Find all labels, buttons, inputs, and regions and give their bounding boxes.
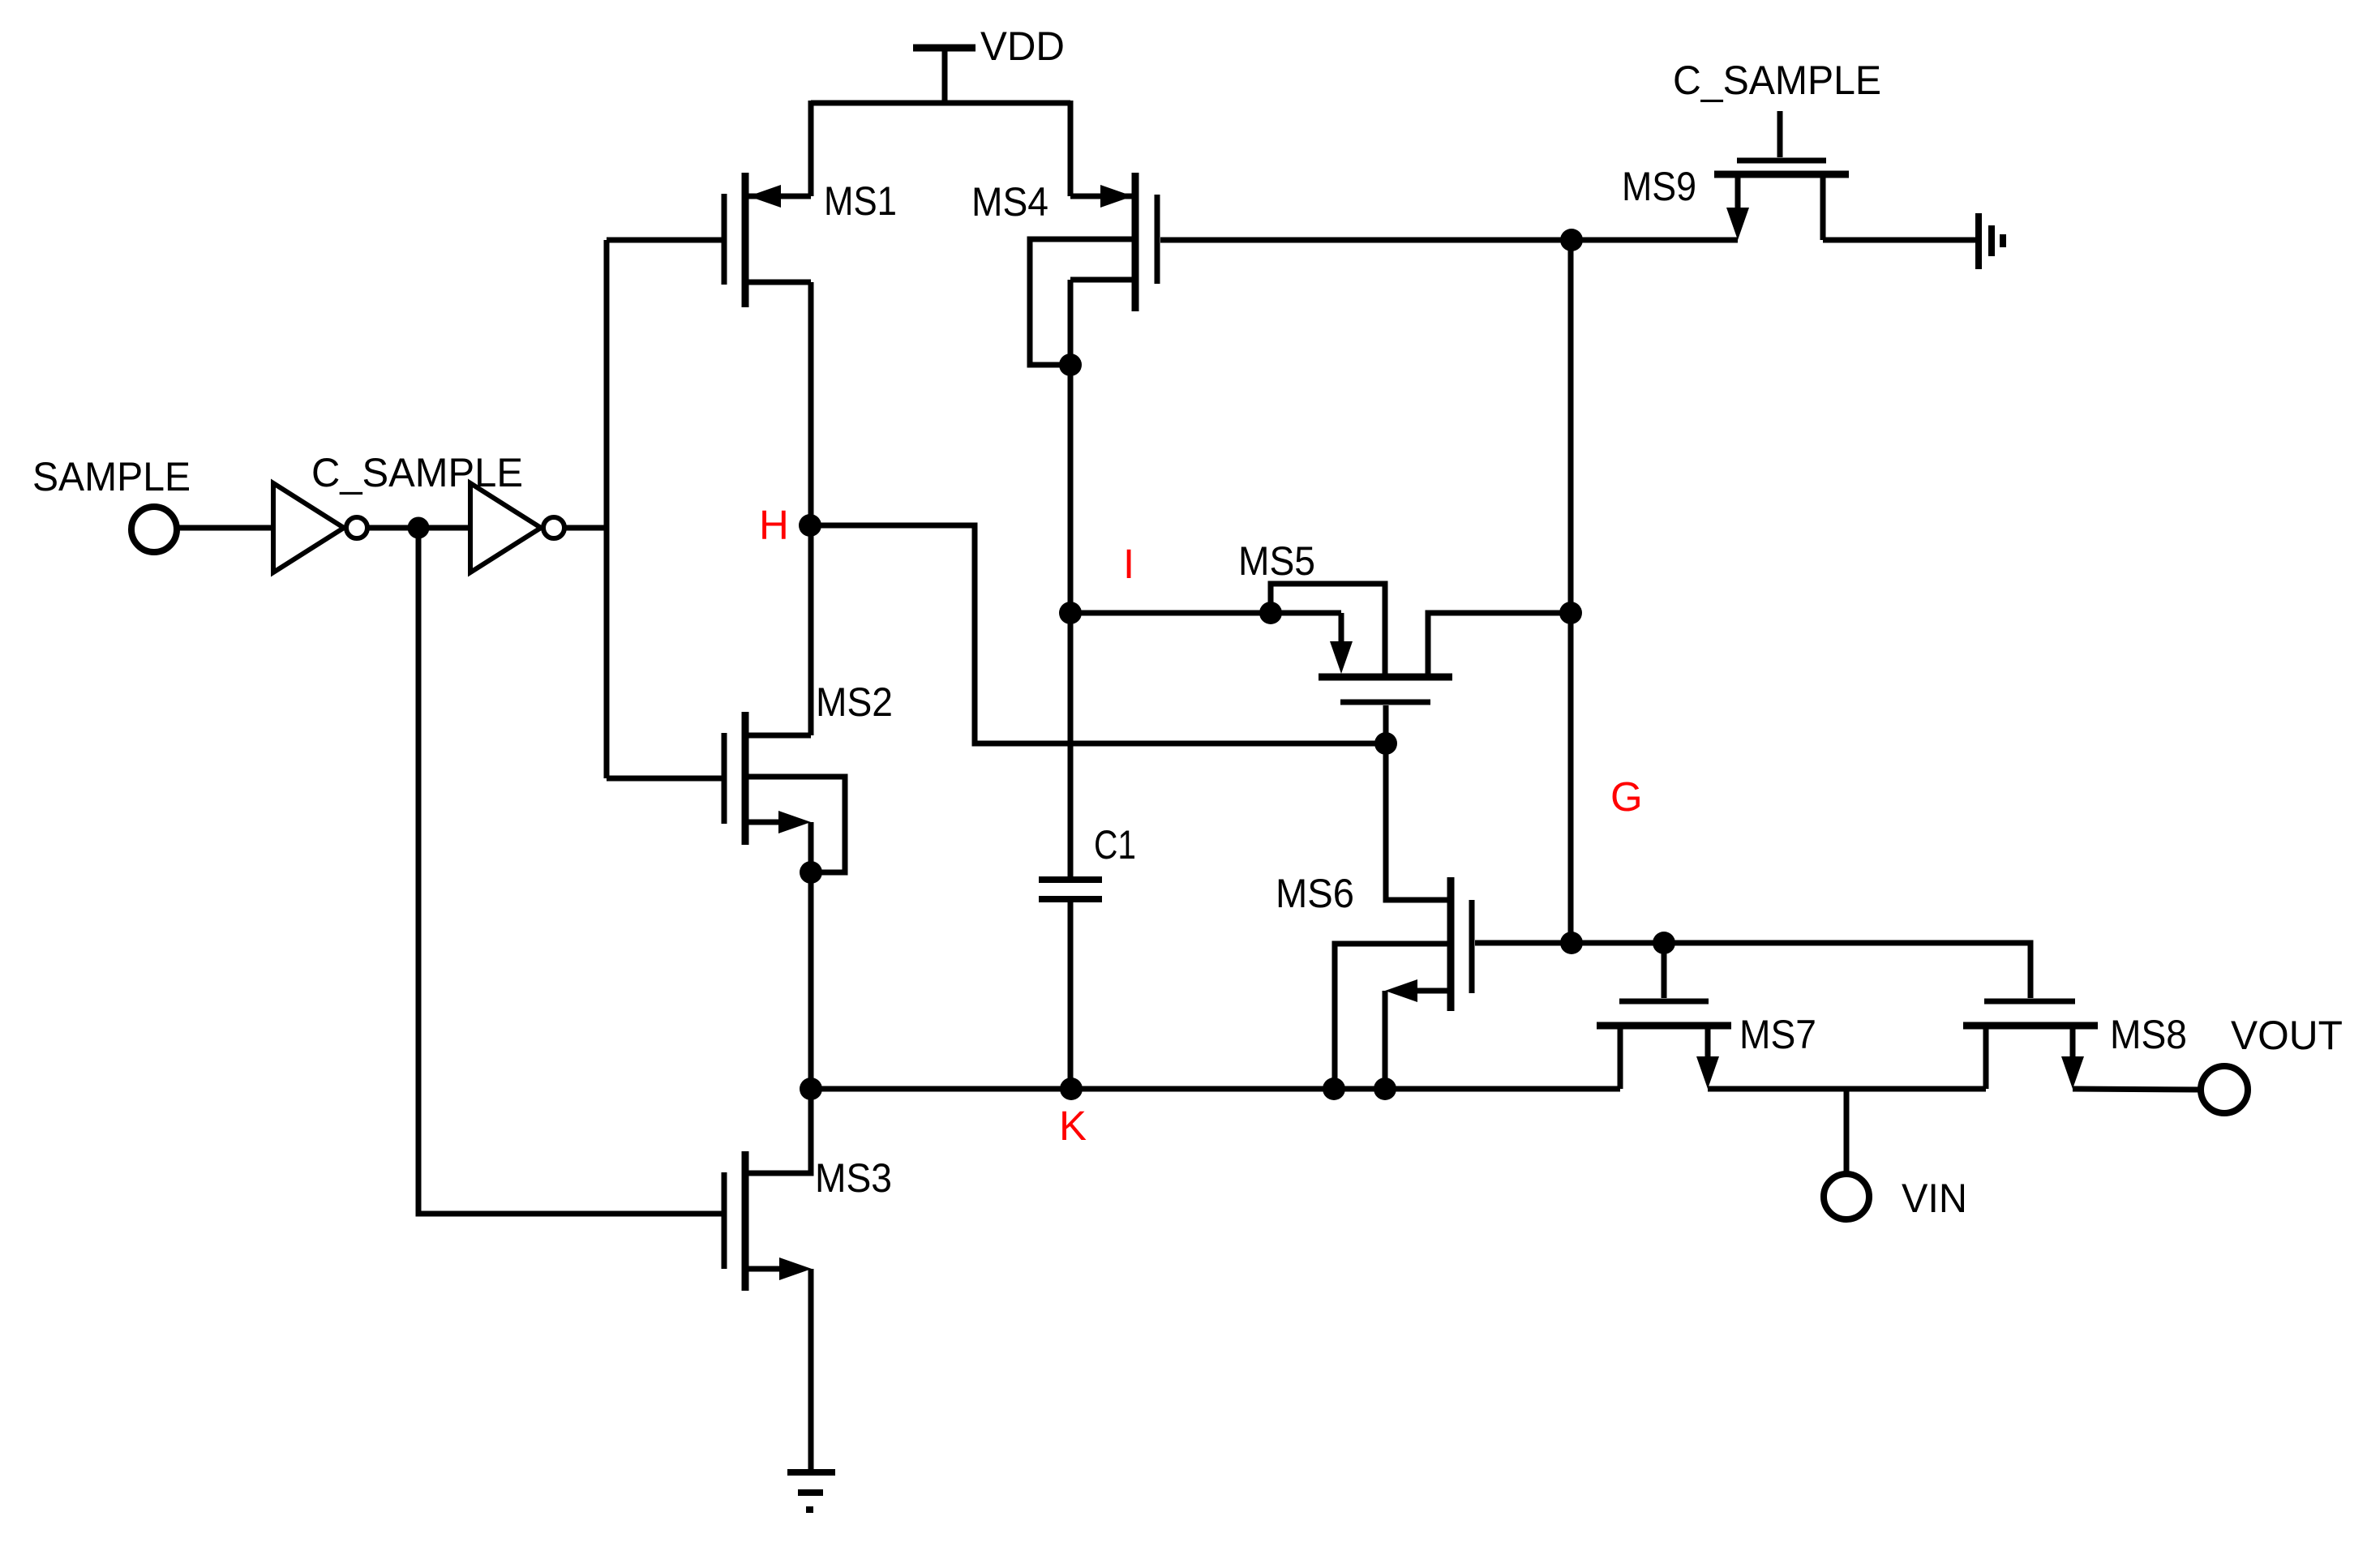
wire MS1 drain to MS2 drain <box>808 282 814 735</box>
node I junction dot <box>1059 602 1082 624</box>
input terminal SAMPLE <box>131 507 177 552</box>
wire node I to capacitor C1 <box>1068 613 1074 876</box>
terminal VIN <box>1824 1174 1869 1219</box>
wire SAMPLE to inverter 1 <box>177 525 273 531</box>
wire C_SAMPLE down to MS3 gate <box>418 528 722 1214</box>
wire rail to MS4 source <box>1068 101 1074 196</box>
transistor MS2 (NMOS) <box>607 712 845 872</box>
transistor MS4 (PMOS, mirrored) <box>1030 173 1157 365</box>
node G mid junction dot <box>1559 602 1582 624</box>
inverter U2 <box>470 483 564 572</box>
svg-text:C_SAMPLE: C_SAMPLE <box>1673 58 1881 103</box>
svg-text:MS9: MS9 <box>1622 164 1696 209</box>
node MS5 gate junction dot <box>1374 732 1397 755</box>
wire rail to MS1 source <box>808 101 814 196</box>
wire MS2 source to node K <box>808 872 814 1089</box>
transistor MS3 (NMOS) <box>724 1089 812 1472</box>
node MS6 source junction dot <box>1374 1077 1396 1100</box>
wire VDD rail <box>811 101 1070 106</box>
svg-text:SAMPLE: SAMPLE <box>32 454 191 499</box>
wire MS5 gate to MS6 drain <box>1383 743 1389 900</box>
wire MS8 source to VOUT <box>2073 1089 2201 1090</box>
wire C_SAMPLE vertical to MS1/MS2 gates <box>604 240 610 778</box>
transistor MS6 (NMOS) <box>1335 743 1572 1089</box>
svg-text:MS5: MS5 <box>1238 538 1315 584</box>
wire inverter2 output <box>564 525 607 531</box>
wire node K rail <box>811 1086 1620 1092</box>
svg-text:MS8: MS8 <box>2110 1012 2187 1057</box>
svg-text:VIN: VIN <box>1902 1176 1967 1221</box>
svg-text:C1: C1 <box>1094 822 1136 868</box>
wire VIN stub <box>1844 1089 1850 1174</box>
capacitor C1 <box>1039 880 1102 1089</box>
node MS5 bulk junction dot <box>1259 602 1282 624</box>
transistor MS7 (NMOS, horizontal) <box>1597 943 1731 1089</box>
node C1 bottom junction dot <box>1060 1077 1083 1100</box>
inverter U1 <box>273 483 367 572</box>
node H junction dot <box>799 514 821 537</box>
svg-text:H: H <box>759 502 789 548</box>
node K junction dot <box>800 1077 822 1100</box>
wire net G vertical <box>1568 240 1574 943</box>
wire node I to MS5 <box>1070 610 1341 616</box>
node MS6 bulk junction dot <box>1323 1077 1345 1100</box>
svg-text:VDD: VDD <box>980 24 1065 69</box>
wire MS4 gate to MS9 <box>1160 238 1738 243</box>
svg-text:VOUT: VOUT <box>2231 1013 2343 1058</box>
transistor MS5 (NMOS, horizontal) <box>1271 584 1571 743</box>
wire inverter1 to inverter2 <box>367 525 470 531</box>
transistor MS1 (PMOS) <box>607 173 811 307</box>
svg-text:MS4: MS4 <box>971 179 1048 225</box>
wire gate row to MS7/MS8 <box>1572 943 2030 998</box>
node MS2 source junction dot <box>800 861 822 884</box>
node MS4 drain junction dot <box>1059 353 1082 376</box>
wire MS7 source to MS8 drain <box>1708 1086 1986 1092</box>
VDD power symbol <box>913 48 976 103</box>
svg-text:G: G <box>1610 773 1643 820</box>
node MS7 gate junction dot <box>1653 932 1675 954</box>
node G bottom junction dot <box>1560 932 1583 954</box>
svg-text:C_SAMPLE: C_SAMPLE <box>311 450 523 495</box>
node C_SAMPLE junction dot <box>408 517 430 539</box>
svg-text:K: K <box>1059 1103 1087 1149</box>
svg-text:MS3: MS3 <box>815 1155 892 1201</box>
transistor MS8 (NMOS, horizontal) <box>1963 1001 2098 1089</box>
ground at MS3 source <box>787 1472 835 1510</box>
svg-text:I: I <box>1123 541 1134 587</box>
wire MS9 drain to ground <box>1823 238 1979 243</box>
wire MS4 drain to node I <box>1068 365 1074 613</box>
svg-text:MS2: MS2 <box>816 679 893 725</box>
node G top junction dot <box>1560 229 1583 251</box>
svg-text:MS7: MS7 <box>1739 1012 1816 1057</box>
transistor MS9 (NMOS, horizontal) <box>1714 111 1849 240</box>
svg-text:MS1: MS1 <box>824 178 897 224</box>
ground at MS9 (sideways) <box>1979 213 2003 269</box>
wire H to MS5 gate <box>810 525 1386 743</box>
terminal VOUT <box>2201 1066 2248 1113</box>
svg-text:MS6: MS6 <box>1276 871 1354 916</box>
